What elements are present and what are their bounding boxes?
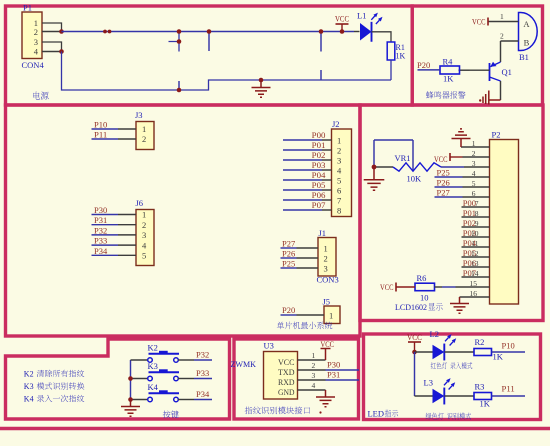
- svg-text:P20: P20: [282, 306, 295, 315]
- P2 pin 9 stub: [462, 226, 490, 228]
- svg-text:P27: P27: [437, 189, 450, 198]
- wire P11: [92, 138, 119, 140]
- buzzer VCC bar: [487, 18, 489, 26]
- svg-text:B: B: [524, 38, 530, 48]
- svg-text:2: 2: [337, 145, 341, 155]
- transistor Q1 base bar: [489, 63, 491, 81]
- wire R4 to base: [459, 69, 470, 71]
- J1 pin 2 stub: [297, 257, 319, 259]
- wire R3 to P11: [492, 395, 526, 397]
- switch K2 left stub: [131, 359, 148, 361]
- svg-text:VCC: VCC: [335, 15, 349, 24]
- svg-text:U3: U3: [264, 341, 274, 351]
- keys ground bus: [130, 360, 132, 400]
- switch K4 right contact: [174, 397, 179, 402]
- resistor R3: [474, 393, 492, 400]
- switch K2 right stub: [178, 359, 194, 361]
- svg-text:10K: 10K: [407, 174, 423, 184]
- P1 pin 4 stub: [42, 51, 62, 53]
- bottom border line: [0, 427, 550, 430]
- wire P31: [326, 379, 360, 381]
- svg-text:VCC: VCC: [380, 283, 394, 292]
- U3 VCC symbol: [321, 349, 331, 361]
- P2 pin16 ground: [450, 297, 469, 313]
- wire P27: [435, 196, 463, 198]
- svg-text:8: 8: [475, 209, 479, 218]
- switch K4 left contact: [148, 397, 153, 402]
- svg-text:P00: P00: [312, 131, 326, 140]
- wire P30: [326, 369, 360, 371]
- svg-text:R6: R6: [417, 273, 427, 283]
- wire L1 to R1: [372, 32, 392, 42]
- label fengmingqi baojing (buzzer alarm): [426, 91, 433, 99]
- switch K2 right contact: [174, 358, 179, 363]
- wire L2 to R2: [445, 351, 475, 353]
- connector P1 box: [22, 12, 42, 59]
- wire P20 (J5): [281, 314, 297, 316]
- svg-text:P25: P25: [437, 169, 450, 178]
- wire P25 (J1): [281, 267, 297, 269]
- svg-text:10: 10: [471, 229, 479, 238]
- svg-text:TXD: TXD: [278, 367, 295, 377]
- switch K3 bar: [149, 371, 180, 373]
- svg-text:1: 1: [337, 135, 341, 145]
- svg-text:1: 1: [329, 311, 333, 321]
- svg-text:CON3: CON3: [317, 275, 339, 285]
- svg-text:R4: R4: [443, 57, 454, 67]
- switch K4 right stub: [178, 399, 194, 401]
- wire P26: [435, 186, 463, 188]
- svg-text:K3: K3: [24, 382, 34, 391]
- wire VCC to L2: [415, 351, 433, 353]
- svg-text:P26: P26: [437, 179, 450, 188]
- svg-text:7: 7: [337, 195, 341, 205]
- svg-text:P31: P31: [327, 371, 340, 380]
- J6 pin 4 stub: [118, 244, 136, 246]
- junction keys bus K4: [128, 397, 133, 402]
- wire VR1 to P2 pin3: [441, 166, 464, 168]
- svg-text:P20: P20: [417, 61, 430, 70]
- VR1 ground symbol: [364, 167, 385, 190]
- svg-text:J3: J3: [135, 110, 143, 120]
- svg-text:3: 3: [312, 371, 316, 380]
- J2 pin 2 stub: [322, 149, 332, 151]
- label danpianji (MCU minimal system): [277, 322, 284, 329]
- LED L3: [433, 389, 445, 404]
- U3 pin 1 stub: [298, 359, 326, 361]
- svg-text:1: 1: [324, 243, 328, 253]
- label lvsedeng (green LED recognize mode): [426, 413, 432, 420]
- wire R6 stub right: [435, 286, 443, 288]
- wire R6 right segment: [442, 286, 456, 288]
- connector J2 box: [332, 129, 352, 217]
- VR1 left vertical wire: [373, 140, 375, 167]
- svg-text:1K: 1K: [480, 399, 491, 409]
- LED VCC symbol: [408, 341, 421, 343]
- connector J1 box: [318, 238, 336, 277]
- P2 pin2 VCC wire: [450, 156, 463, 158]
- switch K3 left contact: [148, 376, 153, 381]
- VR1 wiper: [412, 140, 414, 171]
- svg-text:L1: L1: [357, 11, 366, 21]
- svg-text:6: 6: [337, 185, 341, 195]
- capacitor stub C1 top: [169, 32, 180, 52]
- section frame: keys block (stepped outline): [6, 339, 230, 419]
- svg-text:P33: P33: [196, 369, 209, 378]
- svg-text:1K: 1K: [396, 52, 406, 61]
- P2 pin 11 stub: [462, 246, 490, 248]
- B1 pin 2 stub: [501, 40, 519, 42]
- svg-text:B1: B1: [519, 52, 529, 62]
- J6 pin 2 stub: [118, 224, 136, 226]
- label dianyuan (power): [33, 91, 40, 99]
- svg-text:J2: J2: [332, 119, 340, 129]
- P2 pin 3 stub: [464, 166, 490, 168]
- svg-text:10: 10: [420, 293, 429, 303]
- svg-text:3: 3: [142, 230, 146, 240]
- svg-text:P06: P06: [312, 191, 326, 200]
- wire P06 (J2): [283, 199, 322, 201]
- LED L1: [360, 23, 372, 41]
- svg-text:P02: P02: [312, 151, 326, 160]
- P1 pin 3 stub: [42, 42, 62, 52]
- J6 pin 1 stub: [118, 214, 136, 216]
- J2 pin 3 stub: [322, 159, 332, 161]
- buzzer B1 body: [519, 13, 538, 51]
- P2 pin 16 stub: [460, 296, 490, 298]
- wire R1 bottom: [390, 60, 392, 80]
- svg-text:VCC: VCC: [407, 333, 422, 342]
- J3 pin 2 stub: [118, 138, 136, 140]
- connector J5 box: [324, 306, 340, 324]
- svg-text:J6: J6: [136, 198, 144, 208]
- junction VR1 ground: [372, 165, 377, 170]
- wire Q1 base: [470, 69, 490, 71]
- J5 pin 1 stub: [297, 314, 325, 316]
- label zhiwen jiekou (fingerprint module interface): [245, 407, 253, 415]
- P2 pin 7 stub: [462, 206, 490, 208]
- J2 pin 7 stub: [322, 199, 332, 201]
- resistor R2: [474, 349, 492, 356]
- svg-text:VCC: VCC: [472, 18, 486, 27]
- svg-text:P10: P10: [94, 121, 107, 130]
- svg-text:14: 14: [471, 269, 479, 278]
- P1 pin 2 stub: [42, 31, 62, 33]
- wire P30: [92, 214, 119, 216]
- section frame: LED indicator block: [364, 334, 541, 420]
- svg-text:1K: 1K: [493, 352, 504, 362]
- P2 pin 2 stub: [463, 156, 490, 158]
- stub on ground rail: [178, 81, 180, 90]
- P2 pin2 VCC bar: [449, 153, 451, 161]
- svg-text:P34: P34: [94, 247, 107, 256]
- svg-text:VR1: VR1: [395, 153, 411, 163]
- svg-text:L2: L2: [430, 329, 439, 339]
- svg-text:K4: K4: [148, 382, 159, 392]
- svg-text:J5: J5: [323, 297, 331, 307]
- LED L3 arrows: [444, 382, 452, 390]
- svg-text:R2: R2: [475, 337, 485, 347]
- svg-text:2: 2: [324, 253, 328, 263]
- switch K2 bar: [149, 353, 180, 355]
- U3 pin 3 stub: [298, 379, 326, 381]
- wire P25: [435, 176, 463, 178]
- wire P34: [194, 399, 212, 401]
- svg-text:A: A: [523, 19, 530, 29]
- section frame: LCD display block: [360, 105, 543, 321]
- B1 pin 1 stub: [489, 21, 519, 23]
- wire VCC to R6: [396, 286, 415, 288]
- svg-text:11: 11: [471, 239, 478, 248]
- junction keys bus K3: [128, 376, 133, 381]
- junction pins 1-2: [59, 29, 64, 34]
- svg-text:P34: P34: [196, 390, 209, 399]
- LED L1 arrows: [371, 16, 379, 24]
- wire P07 (J2): [283, 209, 322, 211]
- svg-text:2: 2: [142, 134, 146, 144]
- section frame: fingerprint module block: [234, 339, 359, 419]
- svg-text:5: 5: [142, 251, 146, 261]
- svg-text:P07: P07: [312, 201, 326, 210]
- J2 pin 4 stub: [322, 169, 332, 171]
- wire P01 (J2): [283, 149, 322, 151]
- P2 pin15 VCC bar: [395, 283, 397, 292]
- keys ground symbol: [121, 400, 140, 417]
- U3 pin 4 stub: [298, 389, 326, 391]
- LED L2: [433, 345, 445, 360]
- svg-text:1K: 1K: [443, 74, 454, 84]
- svg-text:R3: R3: [475, 382, 485, 392]
- wire B1 pin2 to Q1: [500, 41, 502, 62]
- connector P2 box: [490, 140, 519, 305]
- svg-text:P01: P01: [312, 141, 326, 150]
- junction pins 3-4: [59, 49, 64, 54]
- svg-text:P11: P11: [94, 131, 107, 140]
- svg-text:P2: P2: [492, 130, 501, 140]
- J2 pin 1 stub: [322, 139, 332, 141]
- svg-text:P03: P03: [312, 161, 326, 170]
- svg-text:13: 13: [471, 259, 479, 268]
- P2 pin 8 stub: [462, 216, 490, 218]
- J2 pin 5 stub: [322, 179, 332, 181]
- module U3 box: [264, 352, 298, 400]
- P2 pin 15 stub: [456, 286, 490, 288]
- junction ground rail: [177, 88, 182, 93]
- svg-text:1: 1: [312, 351, 316, 360]
- J3 pin 1 stub: [118, 128, 136, 130]
- svg-text:8: 8: [337, 205, 341, 215]
- wire P31: [92, 224, 119, 226]
- wire VCC rail top: [62, 31, 355, 33]
- junction C1 mid: [177, 39, 182, 44]
- buzzer ground dot: [479, 99, 481, 101]
- svg-text:4: 4: [312, 381, 316, 390]
- svg-text:9: 9: [475, 219, 479, 228]
- svg-text:3: 3: [337, 155, 341, 165]
- svg-text:2: 2: [500, 32, 504, 41]
- J6 pin 3 stub: [118, 234, 136, 236]
- transistor Q1 emitter lead: [490, 77, 501, 81]
- svg-text:P11: P11: [502, 385, 515, 394]
- svg-text:Q1: Q1: [502, 67, 512, 77]
- connector J6 box: [136, 210, 154, 266]
- svg-text:GND: GND: [278, 387, 295, 397]
- wire P32: [92, 234, 119, 236]
- svg-text:2: 2: [34, 27, 38, 37]
- svg-text:L3: L3: [424, 378, 433, 388]
- svg-text:3: 3: [324, 263, 328, 273]
- svg-text:VCC: VCC: [321, 340, 335, 349]
- svg-text:K2: K2: [148, 343, 158, 353]
- svg-text:1: 1: [142, 124, 146, 134]
- section frame: MCU minimal system block: [6, 105, 361, 336]
- P2 pin 12 stub: [462, 256, 490, 258]
- wire bus to L3: [415, 395, 433, 397]
- section frame: power supply block: [6, 6, 413, 105]
- wire P33: [194, 378, 212, 380]
- section frame: buzzer alarm block: [412, 6, 542, 105]
- svg-text:P05: P05: [312, 181, 326, 190]
- wire P10: [92, 128, 119, 130]
- VR1 top wire: [374, 139, 413, 141]
- wire P00 (J2): [283, 139, 322, 141]
- wire VCC to LED L1: [354, 31, 360, 33]
- svg-text:3: 3: [34, 37, 38, 47]
- svg-text:2: 2: [142, 220, 146, 230]
- capacitor stub C3 bottom: [320, 70, 322, 80]
- wire VCC bus down: [414, 352, 416, 396]
- transistor Q1 collector lead: [491, 62, 501, 67]
- svg-text:ZWMK: ZWMK: [231, 359, 257, 369]
- P2 pin 10 stub: [462, 236, 490, 238]
- wire Q1 emitter down: [500, 81, 502, 100]
- junction C1 top: [177, 29, 182, 34]
- J2 pin 6 stub: [322, 189, 332, 191]
- P2 pin 13 stub: [462, 266, 490, 268]
- svg-text:VCC: VCC: [278, 357, 295, 367]
- junction power ground: [259, 78, 264, 83]
- junction C2 top: [207, 29, 212, 34]
- svg-text:P32: P32: [94, 226, 107, 235]
- switch K4 left stub: [131, 399, 148, 401]
- potentiometer VR1 zigzag: [393, 163, 441, 171]
- wire P02 (J2): [283, 159, 322, 161]
- label anjian (keys): [163, 411, 171, 419]
- P1 pin 1 stub: [42, 23, 62, 32]
- junction C3 top: [319, 29, 324, 34]
- wire ground rail: [62, 52, 392, 91]
- svg-text:P32: P32: [196, 351, 209, 360]
- wire P27 (J1): [281, 247, 297, 249]
- P2 pin 5 stub: [463, 186, 490, 188]
- P2 pin 1 stub: [461, 146, 490, 148]
- switch K2 left contact: [148, 358, 153, 363]
- svg-text:2: 2: [312, 361, 316, 370]
- P2 pin 14 stub: [462, 276, 490, 278]
- J1 pin 1 stub: [297, 247, 319, 249]
- svg-text:J1: J1: [319, 228, 327, 238]
- svg-text:K3: K3: [148, 361, 158, 371]
- wire P20 to R4: [418, 69, 441, 71]
- svg-text:P27: P27: [282, 240, 295, 249]
- wire P03 (J2): [283, 169, 322, 171]
- svg-text:1: 1: [500, 12, 504, 21]
- svg-text:P26: P26: [282, 250, 295, 259]
- U3 GND ground symbol: [316, 390, 335, 407]
- connector J3 box: [136, 122, 154, 150]
- LED L2 arrows: [445, 338, 453, 346]
- svg-text:P30: P30: [327, 361, 340, 370]
- svg-text:P1: P1: [23, 3, 32, 13]
- power VCC symbol: [336, 23, 349, 25]
- J2 pin 8 stub: [322, 209, 332, 211]
- capacitor stub C2: [208, 32, 210, 52]
- svg-text:LCD1602: LCD1602: [395, 302, 427, 312]
- Q1 arrow: [490, 62, 496, 67]
- junction dot b on rail: [108, 30, 112, 34]
- svg-text:P25: P25: [282, 260, 295, 269]
- wire P05 (J2): [283, 189, 322, 191]
- switch K4 bar: [149, 392, 180, 394]
- switch K3 left stub: [131, 378, 148, 380]
- wire P26 (J1): [281, 257, 297, 259]
- wire P33: [92, 244, 119, 246]
- wire L3 to R3: [445, 395, 475, 397]
- svg-text:P04: P04: [312, 171, 326, 180]
- U3 ground dot: [319, 411, 321, 413]
- wire P04 (J2): [283, 179, 322, 181]
- J6 pin 5 stub: [118, 254, 136, 256]
- P2 pin 4 stub: [463, 176, 490, 178]
- wire R2 to P10: [492, 351, 526, 353]
- label hongsedeng (red LED enroll mode): [431, 362, 436, 368]
- svg-text:K2: K2: [24, 370, 34, 379]
- svg-text:7: 7: [475, 199, 479, 208]
- junction LED VCC: [412, 350, 417, 355]
- power ground symbol: [252, 80, 271, 97]
- VR1 pin stub left: [374, 166, 393, 168]
- resistor R6: [415, 283, 435, 291]
- switch K3 right contact: [174, 376, 179, 381]
- resistor R4: [440, 66, 460, 74]
- resistor R1 (vertical): [387, 42, 395, 60]
- buzzer ground (rotated): [483, 91, 501, 105]
- wire P32: [194, 359, 212, 361]
- svg-text:RXD: RXD: [278, 377, 295, 387]
- junction dot a on rail: [103, 30, 107, 34]
- svg-text:P10: P10: [502, 342, 515, 351]
- svg-text:12: 12: [471, 249, 479, 258]
- svg-text:K4: K4: [24, 395, 34, 404]
- J1 pin 3 stub: [297, 267, 319, 269]
- P2 pin1 ground: [452, 129, 471, 147]
- wire P34: [92, 254, 119, 256]
- U3 pin 2 stub: [298, 369, 326, 371]
- svg-text:1: 1: [142, 210, 146, 220]
- capacitor stub C3 top: [320, 32, 322, 52]
- svg-text:5: 5: [337, 175, 341, 185]
- svg-text:VCC: VCC: [434, 155, 448, 164]
- svg-text:P30: P30: [94, 206, 107, 215]
- svg-text:LED: LED: [368, 409, 385, 419]
- svg-text:CON4: CON4: [22, 60, 45, 70]
- switch K3 right stub: [178, 378, 194, 380]
- svg-text:P31: P31: [94, 216, 107, 225]
- svg-text:P33: P33: [94, 237, 107, 246]
- junction VCC: [340, 29, 345, 34]
- P2 pin 6 stub: [463, 196, 490, 198]
